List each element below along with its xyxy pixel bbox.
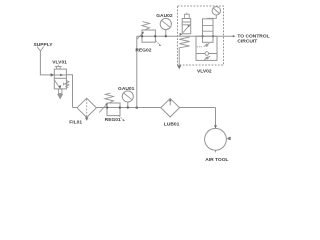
- regulator REG01 relief vent dashed: [119, 116, 124, 120]
- VLV02 left regulator cap: [184, 14, 189, 18]
- VLV02 housing divider: [196, 53, 217, 55]
- svg-text:REG02: REG02: [135, 47, 151, 53]
- gauge GAU01 junction dot: [127, 106, 129, 108]
- gauge GAU02 needle: [162, 21, 170, 27]
- gauge GAU02 stem: [165, 30, 167, 37]
- junction riser dot: [136, 106, 139, 109]
- air tool bottom tick: [215, 150, 217, 152]
- regulator REG01 body: [107, 103, 120, 116]
- VLV02 right filter body: [203, 19, 214, 43]
- gauge (VLV02) circle: [212, 7, 220, 15]
- VLV02 left regulator body: [182, 19, 191, 34]
- wire branch line: [137, 35, 233, 37]
- regulator REG02 body: [142, 30, 155, 42]
- valve VLV01 push-button actuator: [55, 65, 62, 69]
- svg-text:GAU02: GAU02: [156, 13, 173, 19]
- svg-text:FIL01: FIL01: [69, 120, 82, 126]
- svg-text:REG01: REG01: [105, 117, 121, 123]
- wire main line: [73, 107, 216, 109]
- gauge GAU01 stem: [127, 102, 129, 108]
- air tool circle: [205, 128, 227, 150]
- svg-text:GAU01: GAU01: [118, 86, 135, 92]
- dashed enclosure VLV02 assembly: [178, 6, 224, 65]
- regulator REG01 port dots: [106, 107, 108, 109]
- valve VLV01 position divider: [54, 77, 66, 79]
- filter FIL01 drain triangle: [85, 118, 89, 121]
- VLV01 inlet port arrow: [51, 73, 55, 76]
- gauge GAU01 circle: [122, 91, 133, 102]
- VLV02 vent wire: [178, 48, 180, 65]
- to-control arrowhead: [233, 35, 236, 37]
- air tool shaft: [226, 138, 228, 140]
- VLV02 left regulator spring: [179, 37, 189, 48]
- gauge GAU01 needle: [124, 93, 132, 100]
- valve VLV01 exhaust triangle: [58, 94, 63, 98]
- lubricator LUB01 diamond: [161, 98, 180, 117]
- VLV02 left regulator internal arrow: [183, 26, 189, 33]
- svg-text:VLV02: VLV02: [197, 68, 212, 74]
- svg-text:LUB01: LUB01: [164, 122, 180, 128]
- valve VLV01 top cell flow arrowhead: [60, 74, 63, 77]
- supply source arrow: [37, 47, 44, 51]
- VLV02 right filter port dots: [202, 35, 204, 37]
- regulator REG01 spring: [105, 93, 114, 103]
- svg-text:AIR TOOL: AIR TOOL: [205, 157, 228, 163]
- valve VLV01 top cell flow path: [54, 74, 66, 76]
- valve VLV01 bottom cell arrowhead: [59, 85, 62, 88]
- filter FIL01 element dashed: [86, 99, 88, 117]
- valve VLV01 return spring: [66, 80, 69, 87]
- VLV02 left regulator divider: [182, 22, 191, 25]
- wire VLV01 outlet to main line: [66, 75, 72, 108]
- valve VLV01 bottom cell blocked port: [64, 83, 67, 86]
- VLV02 float circle: [205, 52, 209, 56]
- VLV02 gauge connector wire: [208, 15, 217, 19]
- gauge (VLV02) needle: [213, 8, 219, 14]
- filter FIL01 diamond: [77, 98, 96, 117]
- svg-text:CIRCUIT: CIRCUIT: [237, 39, 257, 45]
- regulator REG02 spring: [142, 22, 150, 30]
- gauge GAU02 junction dot: [165, 35, 167, 37]
- VLV02 drain valve mark: [204, 56, 210, 59]
- regulator REG02 port dots: [141, 35, 143, 37]
- wire supply to VLV01 inlet: [40, 51, 50, 75]
- VLV02 vent exhaust triangle: [177, 65, 181, 69]
- wire main line drop to air tool: [215, 108, 217, 128]
- svg-text:VLV01: VLV01: [52, 60, 67, 66]
- VLV02 filter drain mark upper: [204, 43, 210, 46]
- wire riser to branch: [136, 36, 138, 107]
- VLV02 filter housing: [196, 36, 217, 60]
- regulator REG02 relief vent dashed: [156, 41, 160, 45]
- regulator REG02 adjustment arrow: [137, 33, 143, 39]
- VLV02 left regulator inlet arrow: [180, 33, 183, 36]
- regulator REG01 adjustment arrow: [99, 104, 107, 112]
- valve VLV01 bottom cell exhaust path: [55, 80, 61, 88]
- air tool inlet arrowhead: [214, 125, 217, 128]
- gauge GAU02 circle: [160, 18, 171, 29]
- valve VLV01 body: [54, 69, 66, 89]
- VLV02 right filter dividers: [203, 25, 214, 31]
- lubricator LUB01 oil drip arrow: [169, 101, 171, 105]
- valve VLV01 exhaust stub: [58, 89, 62, 94]
